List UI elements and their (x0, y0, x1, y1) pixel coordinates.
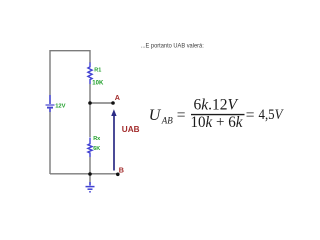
svg-text:U: U (149, 107, 162, 124)
svg-text:...E portanto UAB valerá:: ...E portanto UAB valerá: (141, 43, 204, 50)
formula fraction bar (191, 114, 245, 116)
ground junction dot (88, 172, 92, 176)
svg-text:10k + 6k: 10k + 6k (191, 114, 244, 131)
node B dot (116, 173, 120, 177)
wire ground stub (89, 174, 91, 182)
svg-text:10K: 10K (92, 81, 104, 87)
svg-text:AB: AB (161, 115, 173, 125)
svg-text:UAB: UAB (122, 125, 140, 134)
wire left side (49, 50, 51, 95)
node A end dot (111, 101, 115, 105)
svg-text:12V: 12V (55, 103, 65, 109)
resistor R1 (88, 63, 92, 85)
wire node A horizontal (90, 102, 113, 104)
wire bottom side (50, 173, 118, 175)
node A junction dot (88, 101, 92, 105)
resistor Rx (88, 138, 92, 158)
svg-text:4,5V: 4,5V (259, 107, 285, 123)
battery V1 12V (46, 95, 55, 112)
svg-text:Rx: Rx (93, 136, 101, 142)
wire right side lower (89, 157, 91, 174)
svg-text:B: B (119, 165, 124, 174)
ground (86, 182, 95, 192)
svg-text:6k.12V: 6k.12V (194, 97, 239, 114)
svg-text:6K: 6K (93, 146, 100, 152)
arrow UAB (111, 109, 116, 170)
formula (149, 97, 285, 131)
svg-text:R1: R1 (94, 68, 101, 74)
svg-text:=: = (177, 107, 186, 124)
wire right side upper (89, 50, 91, 63)
svg-text:=: = (246, 107, 255, 124)
wire right side middle (89, 84, 91, 137)
svg-text:A: A (115, 93, 120, 102)
wire top side (50, 50, 90, 52)
wire left side lower (49, 112, 51, 174)
